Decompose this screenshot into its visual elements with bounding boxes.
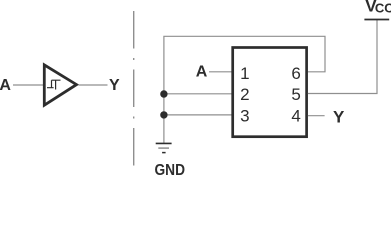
ground symbol — [156, 142, 172, 144]
svg-text:A: A — [0, 77, 11, 94]
svg-text:Y: Y — [333, 107, 345, 126]
svg-text:3: 3 — [240, 107, 249, 126]
wire: A to pin 1 — [209, 71, 234, 73]
svg-text:4: 4 — [291, 107, 300, 126]
wire: buffer output to Y — [79, 84, 108, 86]
power rail VCC (bar) — [364, 19, 389, 21]
svg-text:CC: CC — [375, 0, 391, 15]
Schmitt-trigger buffer (logic symbol) — [44, 65, 76, 105]
svg-text:A: A — [196, 64, 208, 81]
svg-text:6: 6 — [291, 64, 300, 83]
wire: bus to pin 2 — [164, 93, 234, 95]
junction dot (pin 3 / bus) — [160, 111, 167, 118]
svg-text:1: 1 — [240, 64, 249, 83]
junction dot (pin 2 / bus) — [160, 90, 167, 97]
package U1 (6-pin body outline) — [233, 48, 307, 137]
svg-text:Y: Y — [109, 77, 120, 94]
wire: GND bus, top loop to pin 6 — [164, 36, 325, 143]
wire: pin 5 to VCC — [308, 20, 377, 94]
svg-text:5: 5 — [291, 85, 300, 104]
wire: bus to pin 3 — [164, 114, 234, 116]
svg-text:GND: GND — [155, 162, 186, 176]
boundary line (dash-dot divider) — [133, 11, 135, 166]
wire: A to buffer input — [13, 84, 43, 86]
svg-text:2: 2 — [240, 85, 249, 104]
wire: pin 4 to Y — [308, 115, 325, 117]
hysteresis symbol inside buffer — [47, 80, 61, 89]
